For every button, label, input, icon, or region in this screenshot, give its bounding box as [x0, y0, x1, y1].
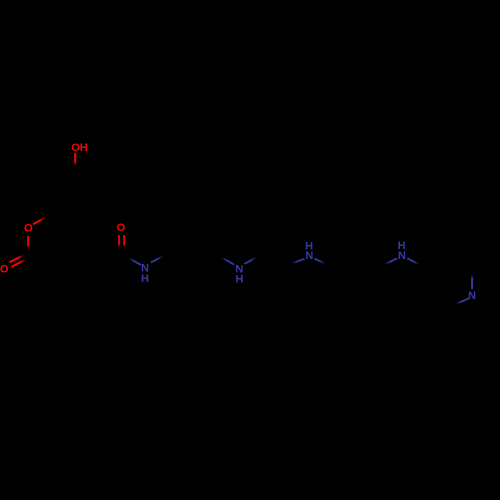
bond N4 to ring C right: [407, 258, 419, 264]
amide double bond C=O line 2: [123, 235, 125, 247]
svg-text:N: N: [468, 290, 476, 302]
svg-text:N: N: [305, 250, 313, 262]
bond ester O to carbonyl C: [27, 236, 29, 248]
bond N2 to chain C right: [244, 257, 256, 264]
bond N2 to chain C left: [222, 258, 235, 265]
amide double bond C=O line 1: [118, 235, 120, 247]
svg-text:O: O: [24, 223, 33, 235]
bond N1 to chain C: [151, 256, 163, 263]
bond ester O to ring C: [33, 217, 46, 224]
svg-text:O: O: [117, 222, 126, 234]
bond N3 to chain C right: [314, 259, 325, 264]
svg-text:H: H: [141, 273, 149, 285]
bond N1 to carbonyl C: [129, 258, 142, 265]
double bond C=O line 1: [9, 255, 23, 262]
bond pyridine N to ring C lower-left: [456, 298, 469, 304]
svg-text:H: H: [235, 273, 243, 285]
svg-text:O: O: [0, 263, 9, 275]
svg-text:OH: OH: [71, 142, 88, 154]
bond N4 to chain C left: [385, 258, 397, 264]
bond N3 to chain C left: [292, 259, 304, 264]
bond O(H)-C aromatic: [74, 153, 76, 166]
bond pyridine N to ring C above: [471, 275, 473, 289]
svg-text:N: N: [398, 250, 406, 262]
double bond C=O line 2: [12, 260, 26, 267]
